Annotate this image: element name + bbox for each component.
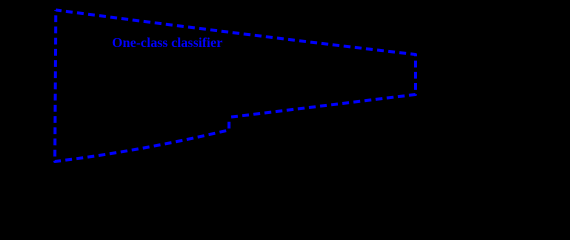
svg-text:One-class classifier: One-class classifier <box>112 35 223 50</box>
